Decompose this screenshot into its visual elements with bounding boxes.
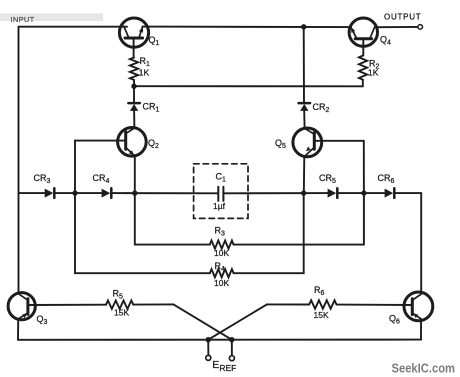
transistor Q2 — [118, 128, 147, 157]
wire R1 to node — [133, 80, 135, 86]
scan smudge behind INPUT — [0, 14, 103, 22]
svg-text:15K: 15K — [314, 310, 329, 320]
wire R3 left leg — [135, 193, 210, 245]
wire top node down to CR2 — [303, 27, 305, 103]
wire row: rail to CR3 — [19, 192, 45, 194]
C1 dashed box — [194, 164, 248, 219]
node dot EREF right — [229, 337, 234, 342]
resistor R5 — [106, 301, 133, 309]
node dot row x303.7 — [301, 190, 306, 195]
wire CR2 to Q5 — [303, 111, 305, 129]
node dot row x75 — [72, 190, 77, 195]
wire CR1 to Q2 — [133, 111, 135, 128]
diode CR1 — [128, 103, 139, 111]
diode CR3 — [45, 188, 55, 198]
wire Q3 bottom lead — [17, 319, 19, 340]
terminal EREF left circle — [206, 355, 211, 360]
node dot EREF left — [206, 337, 211, 342]
diode CR2 — [299, 103, 310, 111]
wire row: CR4 to C1 left plate — [112, 192, 218, 194]
wire R6 left — [267, 303, 309, 305]
wire EREF right stub — [231, 340, 233, 356]
wire Q2 base down to row — [74, 141, 76, 194]
wire row: CR5 to CR6 — [338, 192, 384, 194]
terminal OUTPUT circle — [418, 25, 423, 30]
svg-text:1K: 1K — [368, 68, 379, 78]
wire top left from INPUT to Q1 — [19, 26, 128, 28]
node dot row x134.8 — [132, 190, 137, 195]
wire diagonal R5 to right EREF node — [174, 304, 232, 339]
transistor Q6 — [404, 292, 433, 321]
node dot R1/R2 interconnect — [131, 84, 136, 89]
resistor R1 — [130, 58, 138, 80]
svg-text:10K: 10K — [214, 278, 229, 288]
wire top middle Q1 to Q4 — [143, 26, 351, 29]
transistor Q3 — [8, 293, 35, 320]
wire bottom rail — [18, 339, 421, 341]
wire diagonal R6 to left EREF node — [208, 304, 267, 339]
wire Q6 bottom lead — [420, 319, 422, 340]
node dot row x363.9 — [361, 190, 366, 195]
transistor Q4 — [349, 18, 377, 46]
wire R6 to Q6 base — [337, 304, 413, 306]
wire R3 right leg — [234, 193, 364, 245]
svg-text:15K: 15K — [114, 308, 129, 318]
wire row: CR6 to right rail corner — [395, 192, 421, 194]
diode CR4 — [102, 188, 112, 198]
node dot top rail to CR2 — [301, 24, 306, 29]
wire row: CR3 to CR4 — [55, 192, 101, 194]
wire right rail — [420, 193, 422, 293]
terminal EREF right circle — [229, 356, 234, 361]
wire Q2 base — [75, 140, 126, 142]
svg-text:OUTPUT: OUTPUT — [384, 13, 421, 22]
wire Q4 base to R2 — [362, 39, 364, 56]
wire Q5 emitter down to row — [303, 156, 306, 193]
wire Q1 base to R1 — [133, 38, 135, 58]
svg-text:SeekIC.com: SeekIC.com — [392, 361, 456, 376]
svg-text:1K: 1K — [139, 68, 150, 78]
transistor Q5 — [293, 128, 322, 157]
svg-text:10K: 10K — [214, 248, 229, 258]
resistor R3 — [210, 241, 234, 249]
wire R4 left leg — [75, 193, 210, 273]
wire Q3 base to R5 — [28, 304, 106, 306]
wire Q5 base — [314, 140, 364, 142]
wire EREF left stub — [207, 340, 209, 356]
capacitor C1 plates — [218, 187, 223, 201]
wire left rail — [18, 27, 20, 294]
wire node to CR1 — [133, 86, 135, 103]
wire Q5 base down to row — [363, 141, 365, 193]
transistor Q1 — [119, 18, 148, 47]
diode CR6 — [385, 188, 395, 198]
wire Q4 to OUTPUT terminal — [375, 26, 418, 28]
wire R5 to crossover diagonal — [133, 303, 173, 305]
wire Q2 emitter down to row — [134, 156, 136, 193]
resistor R6 — [309, 300, 336, 308]
diode CR5 — [328, 188, 338, 198]
svg-text:INPUT: INPUT — [11, 15, 35, 24]
resistor R2 — [359, 56, 367, 80]
wire interconnect R1 node to R2 bottom — [134, 80, 363, 86]
svg-text:1µf: 1µf — [213, 201, 226, 211]
resistor R4 — [210, 269, 234, 277]
wire row: C1 right plate to CR5 — [224, 192, 328, 194]
wire R4 right leg — [234, 193, 304, 273]
